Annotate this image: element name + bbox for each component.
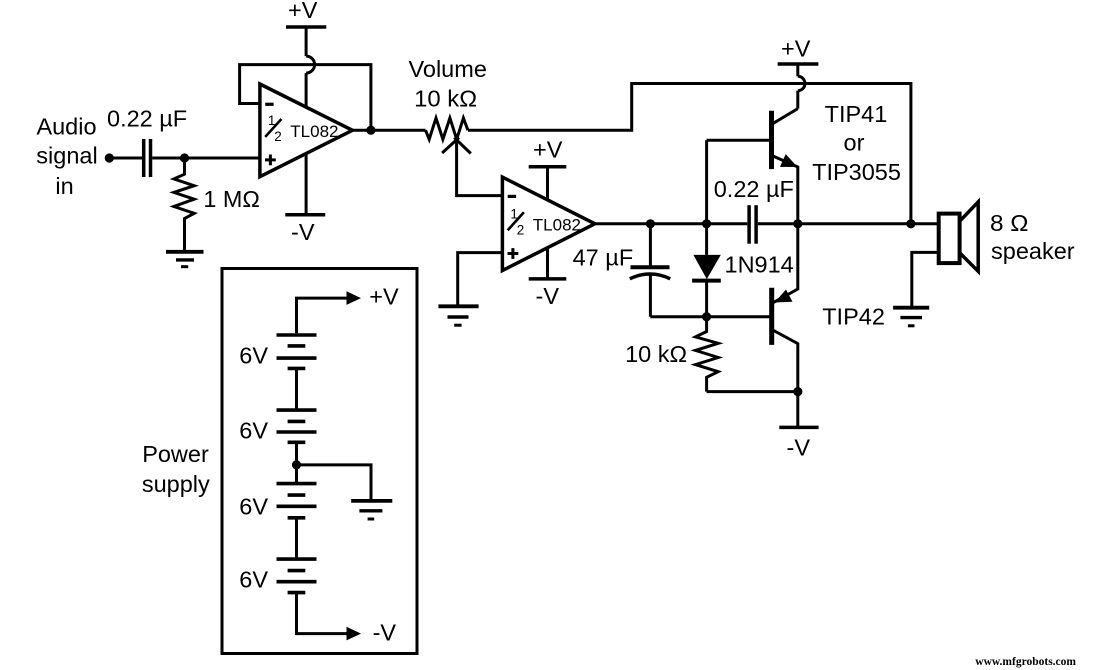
svg-text:-V: -V bbox=[291, 219, 315, 245]
node: 47uF junction bbox=[646, 219, 655, 228]
arrow: +V output bbox=[347, 291, 362, 305]
diode D1 1N914 bbox=[692, 255, 721, 317]
wire: pot right terminal to output rail (top run) bbox=[468, 84, 911, 224]
wire: center tap to ground bbox=[297, 465, 372, 501]
svg-text:www.mfgrobots.com: www.mfgrobots.com bbox=[975, 656, 1076, 668]
node: collector / -V junction bbox=[793, 387, 802, 396]
svg-text:10 kΩ: 10 kΩ bbox=[625, 341, 687, 367]
svg-text:8 Ω: 8 Ω bbox=[990, 210, 1029, 236]
U2 inverting input marker bbox=[508, 195, 516, 198]
U1 label: 1/2 TL082 bbox=[268, 113, 282, 144]
node: U1 output bbox=[366, 126, 375, 135]
ground: input bias bbox=[166, 252, 204, 267]
wire: U1 feedback loop bbox=[240, 65, 371, 131]
svg-text:6V: 6V bbox=[239, 343, 268, 369]
svg-text:or: or bbox=[844, 129, 865, 155]
svg-text:speaker: speaker bbox=[991, 238, 1075, 264]
wire: C3 right plate to speaker bbox=[758, 222, 939, 225]
wire: speaker bottom terminal to ground bbox=[912, 252, 939, 307]
resistor R1 1 Mohm bbox=[174, 162, 194, 252]
svg-text:1 MΩ: 1 MΩ bbox=[203, 186, 260, 212]
U2 non-inverting input marker bbox=[508, 248, 519, 259]
wire: R2 bottom to Q2 collector bbox=[707, 390, 798, 393]
svg-text:TL082: TL082 bbox=[290, 122, 338, 141]
label: Audio signal in bbox=[36, 114, 97, 200]
wire: base drive vertical bbox=[705, 140, 708, 255]
wire: bottom rail 47uF to Q2 base bbox=[650, 315, 771, 318]
node: bottom rail junction bbox=[702, 312, 711, 321]
wire: C1 to op-amp U1 + input bbox=[152, 157, 260, 160]
svg-text:0.22 µF: 0.22 µF bbox=[714, 176, 794, 202]
svg-text:1N914: 1N914 bbox=[725, 252, 794, 278]
svg-text:+V: +V bbox=[533, 136, 563, 162]
ground: power supply center tap bbox=[351, 501, 392, 519]
U2 label: 1/2 TL082 bbox=[510, 206, 524, 237]
wire: U1 output to volume pot bbox=[353, 129, 426, 132]
svg-text:6V: 6V bbox=[239, 567, 268, 593]
wire: U2 output rail to C3 left plate bbox=[595, 222, 747, 225]
node: emitter junction on rail bbox=[793, 219, 802, 228]
svg-text:Power: Power bbox=[142, 441, 209, 467]
svg-text:Audio: Audio bbox=[36, 114, 96, 140]
battery B3 6V bbox=[277, 484, 317, 518]
power -V supply U2 bbox=[529, 248, 567, 309]
potentiometer wiper arrow bbox=[442, 138, 471, 154]
svg-text:-V: -V bbox=[536, 283, 560, 309]
resistor R2 10 kohm bbox=[696, 321, 719, 392]
svg-text:10 kΩ: 10 kΩ bbox=[414, 85, 477, 111]
power supply box bbox=[222, 269, 417, 654]
node: right rail junction bbox=[906, 219, 915, 228]
node A: junction input/R1 bbox=[180, 153, 189, 162]
svg-text:6V: 6V bbox=[239, 418, 268, 444]
power +V supply Q1 bbox=[778, 36, 819, 109]
battery B2 6V bbox=[277, 410, 317, 442]
op-amp U2 triangle bbox=[502, 177, 595, 270]
svg-text:+V: +V bbox=[288, 0, 318, 23]
svg-text:-V: -V bbox=[787, 435, 811, 461]
wire: U2 + input to ground bbox=[458, 253, 503, 307]
wire: B2 to B3 with center tap bbox=[295, 442, 298, 483]
wire: wiper to U2 inverting input bbox=[457, 140, 503, 196]
op-amp U1 triangle bbox=[260, 84, 353, 177]
wire: B4 to -V arrow bbox=[297, 593, 349, 634]
battery B4 6V bbox=[277, 559, 317, 593]
speaker SP1 bbox=[939, 202, 979, 271]
labels: TIP41 or TIP3055 bbox=[812, 101, 901, 185]
U1 inverting input marker bbox=[265, 103, 273, 106]
svg-text:Volume: Volume bbox=[409, 56, 487, 82]
wire: battery stack to +V arrow bbox=[297, 298, 349, 333]
svg-text:TIP41: TIP41 bbox=[825, 101, 888, 127]
svg-text:TL082: TL082 bbox=[533, 216, 581, 235]
svg-text:2: 2 bbox=[517, 223, 525, 238]
transistor Q1 TIP41 bbox=[772, 109, 798, 224]
label: 8 ohm speaker bbox=[990, 210, 1075, 264]
wire: B3 to B4 bbox=[295, 518, 298, 559]
power +V supply U2 bbox=[529, 136, 567, 200]
power -V supply Q2 bbox=[779, 392, 818, 461]
power +V supply U1 bbox=[286, 0, 326, 107]
node: audio input terminal bbox=[105, 153, 114, 162]
svg-text:signal: signal bbox=[36, 143, 97, 169]
ground: U2 non-inverting input bbox=[438, 306, 478, 325]
svg-text:supply: supply bbox=[142, 471, 210, 497]
svg-text:-V: -V bbox=[373, 620, 397, 646]
battery B1 6V bbox=[277, 335, 317, 368]
U1 non-inverting input marker bbox=[265, 155, 276, 166]
wire: Q1 base drive horizontal bbox=[707, 139, 772, 142]
svg-text:+V: +V bbox=[369, 284, 399, 310]
svg-text:+V: +V bbox=[781, 36, 811, 62]
svg-text:TIP3055: TIP3055 bbox=[812, 159, 901, 185]
potentiometer R3 body (Volume 10k) bbox=[426, 118, 468, 139]
node: center tap bbox=[292, 460, 301, 469]
svg-text:TIP42: TIP42 bbox=[822, 304, 885, 330]
wire: input to C1 bbox=[109, 157, 142, 160]
capacitor C2 47uF bbox=[630, 224, 670, 317]
wire: B1 to B2 bbox=[295, 368, 298, 410]
ground: speaker bbox=[893, 308, 929, 326]
transistor Q2 TIP42 bbox=[772, 224, 798, 392]
capacitor C1 bbox=[144, 139, 151, 177]
svg-text:in: in bbox=[55, 173, 73, 199]
svg-text:0.22 µF: 0.22 µF bbox=[107, 106, 187, 132]
power -V supply U1 bbox=[285, 154, 325, 245]
svg-text:2: 2 bbox=[274, 129, 282, 144]
svg-text:6V: 6V bbox=[239, 494, 268, 520]
arrow: -V output bbox=[347, 627, 362, 641]
node: diode branch junction bbox=[702, 219, 711, 228]
capacitor C3 (series 0.22uF) bbox=[749, 205, 756, 244]
svg-text:47 µF: 47 µF bbox=[573, 245, 634, 271]
label: Power supply bbox=[142, 441, 210, 497]
